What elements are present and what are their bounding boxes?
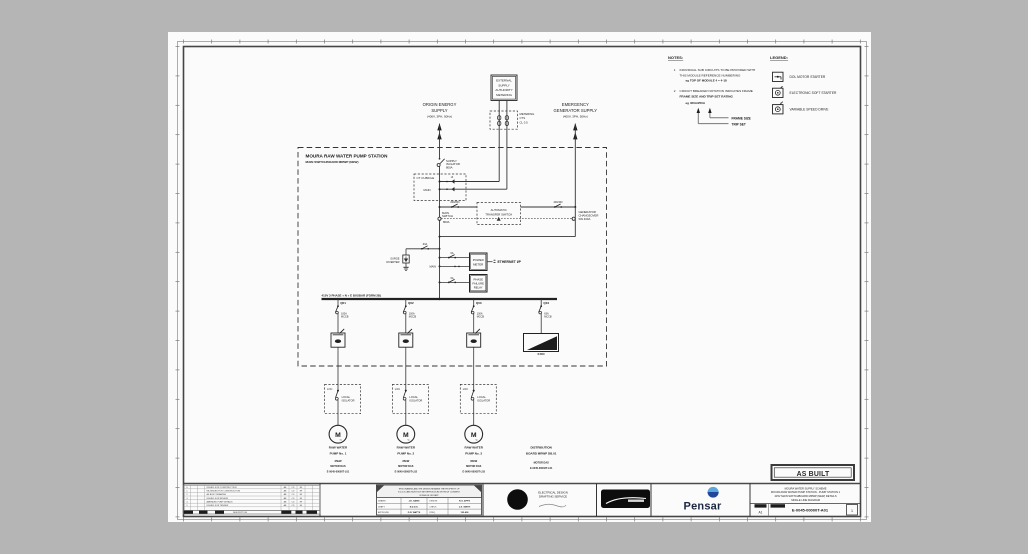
svg-text:Q02: Q02	[408, 301, 414, 305]
svg-text:ISOLATOR: ISOLATOR	[409, 398, 422, 402]
svg-text:E.D.D.S. AND MUST NOT BE REPRO: E.D.D.S. AND MUST NOT BE REPRODUCED WITH…	[398, 491, 460, 494]
svg-text:35kW: 35kW	[402, 459, 409, 463]
svg-text:TRIP SET: TRIP SET	[732, 123, 746, 127]
svg-text:PUMP No. 2: PUMP No. 2	[397, 452, 414, 456]
svg-text:J.E. SAMS: J.E. SAMS	[409, 500, 420, 503]
svg-text:LOCAL: LOCAL	[477, 395, 486, 399]
enclosure title	[306, 153, 389, 163]
svg-text:123-456: 123-456	[460, 511, 469, 514]
svg-text:DRAFTING SERVICE: DRAFTING SERVICE	[539, 495, 567, 499]
svg-text:ISSUED FOR REVIEW: ISSUED FOR REVIEW	[207, 498, 229, 500]
svg-text:ISSUED FOR CONSTRUCTION: ISSUED FOR CONSTRUCTION	[207, 487, 238, 489]
svg-text:CL 0.5: CL 0.5	[520, 121, 529, 125]
svg-text:2: 2	[674, 89, 676, 93]
notes heading	[668, 55, 683, 60]
svg-text:TRANSFER SWITCH: TRANSFER SWITCH	[485, 212, 512, 216]
svg-text:800/800: 800/800	[450, 201, 460, 204]
svg-text:MOURA RAW WATER PUMP STATION -: MOURA RAW WATER PUMP STATION - PUMP STAT…	[771, 490, 841, 494]
mechanical interlock dashed link	[438, 217, 575, 221]
local isolator enclosure 1 (dashed)	[325, 384, 361, 413]
legend DOL motor starter symbol	[773, 72, 826, 81]
svg-text:CIRCUIT BREAKER NOTATION INDIC: CIRCUIT BREAKER NOTATION INDICATES FRAME	[680, 89, 753, 93]
node: emergency generator supply label	[554, 102, 598, 119]
svg-text:RAW WATER: RAW WATER	[397, 446, 416, 450]
soft starter U3	[467, 329, 481, 347]
svg-text:MCCB: MCCB	[544, 316, 552, 319]
svg-text:ISSUED FOR TENDER: ISSUED FOR TENDER	[207, 505, 229, 507]
svg-text:DOL MOTOR STARTER: DOL MOTOR STARTER	[790, 75, 826, 79]
svg-text:1: 1	[851, 509, 853, 513]
svg-text:DISTRIBUTION: DISTRIBUTION	[531, 446, 552, 450]
svg-text:PUMP No. 3: PUMP No. 3	[465, 452, 482, 456]
wire metering left	[440, 101, 500, 182]
svg-text:DIVERTER: DIVERTER	[386, 260, 399, 264]
svg-text:SWITCH: SWITCH	[442, 214, 453, 218]
wire isolator 3 to motor	[473, 400, 475, 425]
soft starter U2	[399, 329, 413, 347]
wire feeder 1	[337, 313, 339, 333]
svg-text:Q03: Q03	[476, 301, 482, 305]
svg-text:DESCRIPTION: DESCRIPTION	[233, 512, 248, 514]
svg-text:METERING: METERING	[496, 93, 513, 97]
svg-text:RE-ISSUED FOR CONSTRUCTION: RE-ISSUED FOR CONSTRUCTION	[207, 491, 241, 493]
svg-text:SURGE: SURGE	[390, 256, 399, 260]
svg-text:E-0045-00000T-L02: E-0045-00000T-L02	[395, 470, 418, 473]
svg-text:CTS: CTS	[520, 116, 526, 120]
svg-text:~: ~	[780, 101, 782, 105]
svg-text:LOC: LOC	[327, 387, 332, 391]
svg-text:SUPPLY: SUPPLY	[431, 108, 447, 113]
svg-text:THIS MODULE REFERENCE NUMBERIN: THIS MODULE REFERENCE NUMBERING	[680, 74, 741, 78]
svg-text:Q04: Q04	[543, 301, 549, 305]
main switch breaker	[442, 201, 460, 224]
svg-text:LOCAL: LOCAL	[342, 395, 351, 399]
svg-text:MOTOR DAS: MOTOR DAS	[466, 465, 482, 468]
wire starter 1 to isolator	[337, 347, 339, 390]
label raw water pump no 3	[463, 446, 486, 474]
EDDS logo circle	[507, 489, 568, 510]
svg-text:DRAFT: DRAFT	[378, 505, 385, 508]
svg-text:CT CUBICLE: CT CUBICLE	[417, 176, 435, 180]
svg-text:415V 3 PHASE + N + E BUSBAR (F: 415V 3 PHASE + N + E BUSBAR (FORM 3B)	[322, 294, 381, 298]
svg-text:ORIGIN ENERGY: ORIGIN ENERGY	[423, 102, 457, 107]
motor M2	[397, 425, 415, 443]
drawing title text	[771, 486, 841, 501]
svg-text:ISOLATOR: ISOLATOR	[477, 398, 490, 402]
svg-text:MCCB: MCCB	[477, 316, 485, 319]
svg-text:MAIN: MAIN	[430, 265, 437, 269]
external supply authority metering box	[491, 75, 517, 101]
svg-text:eg TOP OF MODULE 4 = 4-18: eg TOP OF MODULE 4 = 4-18	[686, 79, 727, 83]
svg-text:ELECTRONIC SOFT STARTER: ELECTRONIC SOFT STARTER	[790, 91, 838, 95]
svg-text:METERING: METERING	[520, 112, 535, 116]
legend variable speed drive symbol	[773, 101, 830, 114]
svg-text:LOCAL: LOCAL	[409, 395, 418, 399]
label raw water pump no 1	[327, 446, 350, 474]
svg-text:E-0045-00000T-A01: E-0045-00000T-A01	[792, 508, 829, 513]
svg-text:(400V, 3PH, 50Hz): (400V, 3PH, 50Hz)	[563, 115, 588, 119]
main drawing border	[184, 47, 861, 517]
svg-text:xxxxx: xxxxx	[633, 504, 640, 506]
svg-text:E.D.D.S.: E.D.D.S.	[410, 506, 419, 508]
motor M1	[329, 425, 347, 443]
svg-text:800A: 800A	[446, 166, 453, 170]
svg-text:EMERGENCY: EMERGENCY	[562, 102, 589, 107]
wire feeder 3	[473, 313, 475, 333]
svg-text:MOTOR DAS: MOTOR DAS	[330, 465, 346, 468]
svg-text:MAIN SWITCHBOARD MRWP (NEW): MAIN SWITCHBOARD MRWP (NEW)	[306, 160, 359, 164]
svg-text:D.R. WATTS: D.R. WATTS	[408, 511, 421, 514]
Pensar logo	[684, 487, 722, 512]
svg-text:SUPPLY: SUPPLY	[498, 83, 510, 87]
svg-text:MOTOR DAS: MOTOR DAS	[534, 462, 550, 465]
svg-text:35kW: 35kW	[470, 459, 477, 463]
emergency generator supply incoming arrows	[573, 123, 577, 207]
svg-text:DRAWN: DRAWN	[378, 500, 386, 503]
svg-text:RPEQ: RPEQ	[430, 512, 436, 514]
svg-text:EXTERNAL: EXTERNAL	[496, 79, 512, 83]
svg-text:415V MAIN SWITCHBOARD MRWP (NE: 415V MAIN SWITCHBOARD MRWP (NEW) DETAILS	[774, 494, 836, 498]
svg-text:RELAY: RELAY	[474, 286, 483, 290]
svg-text:AS BUILT: AS BUILT	[797, 471, 830, 478]
supply isolator	[437, 158, 460, 170]
phase failure relay branch	[439, 277, 470, 284]
switchboard enclosure (dashed)	[298, 148, 607, 367]
svg-text:LOC: LOC	[463, 387, 468, 391]
svg-text:eg 400A/250A: eg 400A/250A	[686, 101, 706, 105]
automatic transfer switch box (dashed)	[477, 203, 521, 225]
svg-text:RAW WATER: RAW WATER	[464, 446, 483, 450]
border grid tick marks	[176, 40, 869, 522]
as built stamp	[772, 465, 855, 480]
generator changeover breaker	[553, 201, 598, 221]
busbar label	[322, 294, 381, 298]
svg-text:MOURA WATER SUPPLY SCHEME: MOURA WATER SUPPLY SCHEME	[785, 486, 827, 490]
svg-text:E-0045-00002T-L01: E-0045-00002T-L01	[530, 467, 553, 470]
svg-text:A1: A1	[759, 511, 763, 515]
note 2	[674, 89, 753, 105]
wire metering right	[440, 101, 507, 190]
svg-text:800A: 800A	[443, 220, 450, 224]
svg-text:E-0045-00000T-L01: E-0045-00000T-L01	[327, 470, 350, 473]
svg-text:ETHERNET I/P: ETHERNET I/P	[498, 260, 522, 264]
note 2 example callout diagram	[697, 108, 751, 127]
CT metering tap 1	[439, 176, 455, 184]
svg-text:LEGEND:: LEGEND:	[770, 55, 788, 60]
svg-text:AS BUILT DRAWING: AS BUILT DRAWING	[207, 493, 227, 496]
svg-text:ISOLATOR: ISOLATOR	[342, 398, 355, 402]
node: origin energy supply label	[423, 102, 457, 119]
breaker Q01	[335, 298, 348, 319]
svg-text:6A: 6A	[450, 277, 453, 280]
svg-text:MCCB: MCCB	[409, 316, 417, 319]
svg-text:INDIVIDUAL SUB CIRCUITS TO BE: INDIVIDUAL SUB CIRCUITS TO BE PROVIDED W…	[680, 68, 756, 72]
svg-text:Pensar: Pensar	[684, 500, 722, 512]
svg-text:APPROVED: APPROVED	[378, 511, 390, 514]
svg-text:THIS DRAWING AND THE DESIGN RE: THIS DRAWING AND THE DESIGN REMAINS THE …	[398, 487, 460, 490]
node ethernet ip	[487, 260, 522, 264]
svg-text:MOTOR DAS: MOTOR DAS	[398, 465, 414, 468]
local isolator enclosure 2 (dashed)	[392, 384, 428, 413]
revision table	[184, 485, 321, 514]
svg-text:METER: METER	[473, 262, 483, 266]
power meter box	[470, 253, 488, 271]
svg-text:E-0045-00000T-L03: E-0045-00000T-L03	[463, 470, 486, 473]
breaker Q02	[403, 298, 416, 319]
svg-text:RAW WATER: RAW WATER	[329, 446, 348, 450]
CT cubicle (dashed)	[414, 174, 466, 201]
wire isolator 2 to motor	[405, 400, 407, 425]
wire feeder DB	[540, 313, 542, 333]
wire main incomer	[439, 167, 441, 300]
busbar 415V	[322, 298, 558, 300]
svg-text:R.G. APPS: R.G. APPS	[459, 500, 471, 503]
svg-text:SW 400A: SW 400A	[579, 217, 591, 221]
svg-text:Q01: Q01	[340, 301, 346, 305]
title block frame	[184, 484, 861, 517]
svg-text:POWER: POWER	[473, 258, 484, 262]
svg-text:MCCB: MCCB	[341, 316, 349, 319]
note 1	[674, 68, 755, 83]
wire ATS horizontal	[439, 206, 577, 208]
wire starter 2 to isolator	[405, 347, 407, 390]
surge diverter branch	[386, 243, 440, 270]
svg-text:35kW: 35kW	[334, 459, 341, 463]
svg-text:FRAME SIZE AND TRIP SET RATING: FRAME SIZE AND TRIP SET RATING	[680, 94, 734, 98]
label raw water pump no 2	[395, 446, 418, 474]
soft starter U1	[331, 329, 345, 347]
power meter branch	[430, 252, 470, 269]
svg-text:D.PAC: D.PAC	[538, 353, 546, 356]
wire generator to bus	[439, 207, 576, 238]
svg-text:MAIN: MAIN	[424, 188, 431, 192]
origin energy supply incoming arrows	[437, 123, 441, 158]
local isolator enclosure 3 (dashed)	[460, 384, 496, 413]
svg-text:AUTHORITY: AUTHORITY	[495, 88, 512, 92]
motor M3	[465, 425, 483, 443]
CT metering tap 2	[439, 187, 455, 191]
svg-text:PUMP No. 1: PUMP No. 1	[330, 452, 347, 456]
breaker Q03	[471, 298, 484, 319]
phase failure relay box	[470, 275, 488, 293]
legend heading	[770, 55, 788, 60]
svg-text:BOARD MRWP DB.01: BOARD MRWP DB.01	[526, 452, 557, 456]
distribution board chassis symbol	[524, 334, 559, 357]
wire feeder 2	[405, 313, 407, 333]
svg-text:AMENDED PUMP DETAILS: AMENDED PUMP DETAILS	[207, 500, 234, 503]
svg-text:DESIGN: DESIGN	[430, 501, 438, 503]
caution table	[377, 485, 482, 515]
svg-text:IN WHOLE OR PART: IN WHOLE OR PART	[419, 494, 439, 497]
contractor logo (black)	[601, 490, 650, 509]
outer reference frame	[178, 42, 867, 520]
breaker Q04	[539, 298, 552, 319]
drawing number band	[750, 504, 861, 517]
svg-text:GENERATOR SUPPLY: GENERATOR SUPPLY	[554, 108, 598, 113]
legend electronic soft starter symbol	[773, 86, 838, 97]
svg-text:400/400: 400/400	[553, 201, 563, 204]
svg-text:MOURA RAW WATER PUMP STATION: MOURA RAW WATER PUMP STATION	[306, 153, 389, 158]
svg-text:1: 1	[674, 68, 676, 72]
svg-text:63A: 63A	[423, 243, 428, 246]
metering CTs enclosure	[490, 111, 534, 129]
wire isolator 1 to motor	[337, 400, 339, 425]
svg-text:J.S. SMITH: J.S. SMITH	[459, 506, 471, 508]
svg-text:CHECK: CHECK	[430, 506, 438, 508]
svg-text:FRAME SIZE: FRAME SIZE	[732, 117, 751, 121]
svg-text:LOC: LOC	[395, 387, 400, 391]
svg-text:NOTES:: NOTES:	[668, 55, 683, 60]
svg-text:(400V, 3PH, 50Hz): (400V, 3PH, 50Hz)	[427, 115, 452, 119]
label distribution board	[526, 446, 557, 470]
wire starter 3 to isolator	[473, 347, 475, 390]
svg-text:SINGLE LINE DIAGRAM: SINGLE LINE DIAGRAM	[791, 498, 820, 502]
svg-text:VARIABLE SPEED DRIVE: VARIABLE SPEED DRIVE	[790, 108, 830, 112]
svg-text:6A: 6A	[450, 252, 453, 255]
